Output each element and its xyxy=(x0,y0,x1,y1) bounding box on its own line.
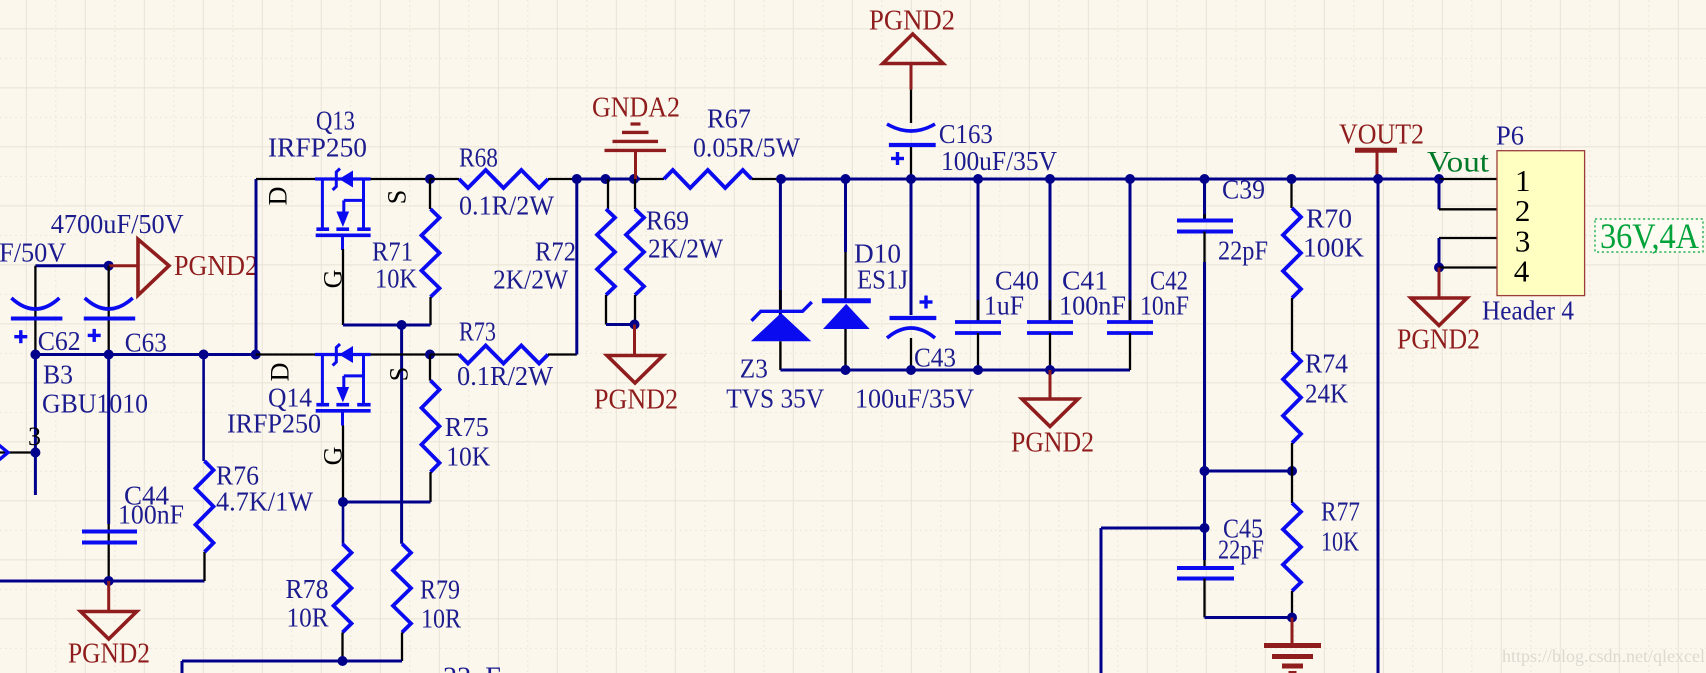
svg-text:R77: R77 xyxy=(1321,497,1360,527)
wire DC bus y=354.5 xyxy=(35,353,256,356)
capacitor C62 xyxy=(11,266,81,356)
capacitor C163 100uF/35V xyxy=(887,90,1057,179)
svg-text:4: 4 xyxy=(1514,253,1530,288)
resistor R70 100K xyxy=(1283,179,1365,352)
svg-text:R67: R67 xyxy=(707,104,751,134)
ground PGND2 below header xyxy=(1397,268,1480,356)
ground PGND2 below C44 xyxy=(68,581,150,669)
svg-text:S: S xyxy=(385,367,414,381)
wire divider bottom y=617.5 xyxy=(1205,616,1293,619)
svg-text:R70: R70 xyxy=(1306,204,1352,234)
svg-text:36V,4A: 36V,4A xyxy=(1600,216,1699,256)
svg-text:GNDA2: GNDA2 xyxy=(592,92,680,123)
svg-text:PGND2: PGND2 xyxy=(1011,427,1094,458)
svg-text:22pF: 22pF xyxy=(1218,535,1264,565)
svg-text:R75: R75 xyxy=(445,412,489,442)
svg-text:22uF: 22uF xyxy=(443,662,501,673)
node D10 ground junction xyxy=(841,365,851,375)
node R77 bottom junction xyxy=(1287,613,1297,623)
node Q14 gate junction xyxy=(338,497,348,507)
capacitor C43 100uF/35V xyxy=(855,179,974,414)
svg-text:B3: B3 xyxy=(43,360,73,390)
resistor R68 0.1R/2W xyxy=(430,143,577,221)
wire bottom-left ground bus y=581 xyxy=(0,580,205,583)
svg-text:4700uF/50V: 4700uF/50V xyxy=(0,238,67,268)
svg-text:PGND2: PGND2 xyxy=(594,384,678,415)
svg-text:S: S xyxy=(383,190,412,204)
node divider mid junction right xyxy=(1287,466,1297,476)
resistor R72 2K/2W xyxy=(493,179,615,325)
wire divider link y=471 xyxy=(1205,470,1293,473)
wire R73 tie-up x=576.8 xyxy=(575,179,578,355)
capacitor C39 22pF xyxy=(1177,175,1268,266)
svg-text:PGND2: PGND2 xyxy=(869,5,955,36)
svg-text:R71: R71 xyxy=(372,237,413,267)
node VOUT2 junction xyxy=(1373,174,1383,184)
wire pin1-pin2 link xyxy=(1438,179,1441,209)
capacitor C40 1uF xyxy=(955,179,1039,370)
capacitor C45 22pF xyxy=(1177,514,1264,618)
connector P6 Header 4 xyxy=(1482,121,1585,326)
wire R72/R69 bottom y=326 xyxy=(606,323,635,326)
svg-text:G: G xyxy=(319,270,348,289)
svg-text:PGND2: PGND2 xyxy=(68,638,150,669)
capacitor C44 xyxy=(82,355,184,582)
svg-text:10R: 10R xyxy=(421,604,461,634)
node C40 rail junction xyxy=(973,174,983,184)
wire output sense drop x=1378 xyxy=(1377,179,1380,673)
node C41 rail junction xyxy=(1045,174,1055,184)
svg-text:R74: R74 xyxy=(1305,349,1348,379)
svg-text:2K/2W: 2K/2W xyxy=(493,265,568,295)
wire drain tie x=256 xyxy=(255,179,258,355)
wire top cap bus y=266 xyxy=(35,264,109,267)
ground PGND2 below R69 xyxy=(594,325,678,416)
power port PGND2 (right-pointing) near C63 xyxy=(109,239,258,295)
node B3 output junction xyxy=(30,448,40,458)
transistor Q14 IRFP250 xyxy=(227,344,430,502)
node C39 rail junction xyxy=(1200,174,1210,184)
svg-text:D: D xyxy=(264,187,293,206)
svg-text:R69: R69 xyxy=(646,206,689,236)
node header pin4 junction xyxy=(1434,263,1444,273)
wire ground rail y=370 xyxy=(780,369,1130,372)
svg-text:1uF: 1uF xyxy=(984,291,1024,321)
svg-text:GBU1010: GBU1010 xyxy=(42,389,148,419)
node header pin1 junction xyxy=(1434,174,1444,184)
wire header pin1 xyxy=(1439,178,1497,180)
svg-text:10K: 10K xyxy=(375,264,417,294)
resistor R73 0.1R/2W xyxy=(430,317,577,392)
node C44 ground junction xyxy=(104,576,114,586)
svg-text:10R: 10R xyxy=(287,603,329,633)
node Q13 source junction xyxy=(425,174,435,184)
wire feedback y=528 xyxy=(1101,527,1205,530)
node C163/C43 rail junction xyxy=(906,174,916,184)
transistor Q13 IRFP250 xyxy=(256,106,430,325)
diode D10 ES1J xyxy=(822,179,908,370)
power port VOUT2 xyxy=(1339,119,1424,179)
power port PGND2 above C163 xyxy=(869,5,955,89)
svg-text:Z3: Z3 xyxy=(740,354,768,384)
ground GNDA2-style below R77 xyxy=(1264,618,1321,673)
node C62/C63 top junction xyxy=(104,261,114,271)
svg-text:24K: 24K xyxy=(1305,379,1348,409)
svg-text:C39: C39 xyxy=(1222,175,1265,205)
wire gate resistors bottom y=661 xyxy=(182,660,402,663)
node R78 bottom junction xyxy=(338,656,348,666)
svg-text:R73: R73 xyxy=(459,317,496,347)
svg-text:100nF: 100nF xyxy=(1059,291,1126,321)
svg-text:D: D xyxy=(266,363,295,382)
wire header pin2 xyxy=(1439,208,1497,210)
svg-text:4700uF/50V: 4700uF/50V xyxy=(51,209,184,239)
svg-text:4.7K/1W: 4.7K/1W xyxy=(216,487,314,517)
svg-text:ES1J: ES1J xyxy=(857,265,908,295)
svg-text:TVS 35V: TVS 35V xyxy=(726,384,824,414)
svg-text:0.1R/2W: 0.1R/2W xyxy=(457,361,553,391)
svg-text:Header 4: Header 4 xyxy=(1482,296,1574,326)
svg-text:10K: 10K xyxy=(446,442,490,472)
node Z3 rail junction xyxy=(776,174,786,184)
resistor R67 0.05R/5W xyxy=(640,104,800,188)
wire Q14 gate node y=502 xyxy=(343,501,431,504)
svg-text:100K: 100K xyxy=(1303,233,1365,263)
node C42 rail junction xyxy=(1125,174,1135,184)
resistor R78 10R xyxy=(286,502,352,661)
resistor R77 10K xyxy=(1283,471,1360,618)
capacitor C41 100nF xyxy=(1027,179,1126,370)
ground PGND2 below C41 xyxy=(1011,370,1094,458)
node D10 rail junction xyxy=(841,174,851,184)
svg-text:R79: R79 xyxy=(420,575,460,605)
node Q14 source junction xyxy=(425,350,435,360)
node R72/R69 bottom junction xyxy=(630,320,640,330)
svg-text:https://blog.csdn.net/qlexcel: https://blog.csdn.net/qlexcel xyxy=(1502,646,1705,666)
svg-text:10nF: 10nF xyxy=(1140,291,1189,321)
node C43 ground junction xyxy=(906,365,916,375)
resistor R74 24K xyxy=(1283,349,1348,471)
note 36V,4A xyxy=(1595,216,1703,256)
node Q13 gate junction xyxy=(397,320,407,330)
svg-text:3: 3 xyxy=(28,422,41,451)
svg-text:C63: C63 xyxy=(125,327,167,357)
wire header pin4 xyxy=(1439,266,1497,268)
svg-text:R78: R78 xyxy=(286,574,329,604)
svg-text:2K/2W: 2K/2W xyxy=(648,234,723,264)
node rail junctions xyxy=(572,174,582,184)
capacitor C42 10nF xyxy=(1107,179,1189,370)
svg-text:R68: R68 xyxy=(459,143,498,173)
wire Q13 gate node y=325 xyxy=(343,324,431,327)
TVS Z3 35V xyxy=(726,179,824,414)
wire C39 column down xyxy=(1203,262,1206,560)
svg-text:C43: C43 xyxy=(914,343,956,373)
node bus junctions xyxy=(30,350,40,360)
wire gate drive drop x=401.6 xyxy=(400,325,403,544)
svg-text:100nF: 100nF xyxy=(118,500,184,530)
svg-text:R72: R72 xyxy=(535,237,576,267)
svg-text:100uF/35V: 100uF/35V xyxy=(855,384,974,414)
resistor R75 10K xyxy=(422,355,491,503)
svg-text:C163: C163 xyxy=(939,119,993,149)
svg-text:C62: C62 xyxy=(38,326,81,356)
power port GNDA2 xyxy=(592,92,680,179)
wire pin3-pin4 link xyxy=(1438,238,1441,268)
capacitor C63 xyxy=(84,266,167,358)
svg-text:22pF: 22pF xyxy=(1218,236,1268,266)
resistor R71 10K xyxy=(372,179,440,325)
resistor R69 2K/2W xyxy=(626,179,723,325)
node R70 rail junction xyxy=(1287,174,1297,184)
svg-text:PGND2: PGND2 xyxy=(1397,324,1480,355)
node C40 ground junction xyxy=(973,365,983,375)
resistor R76 4.7K/1W xyxy=(196,355,314,582)
svg-text:IRFP250: IRFP250 xyxy=(268,133,367,163)
svg-text:VOUT2: VOUT2 xyxy=(1339,119,1424,150)
svg-text:P6: P6 xyxy=(1496,121,1524,151)
svg-text:100uF/35V: 100uF/35V xyxy=(941,146,1057,176)
svg-text:Vout: Vout xyxy=(1427,146,1490,179)
svg-text:0.1R/2W: 0.1R/2W xyxy=(459,191,554,221)
svg-text:G: G xyxy=(319,447,348,466)
svg-text:10K: 10K xyxy=(1321,527,1359,557)
resistor R79 10R xyxy=(393,544,461,661)
node C45 top junction xyxy=(1200,523,1210,533)
svg-text:IRFP250: IRFP250 xyxy=(227,409,321,439)
wire output rail y=179 xyxy=(577,178,640,181)
svg-text:PGND2: PGND2 xyxy=(174,251,258,282)
wire header pin3 xyxy=(1439,237,1497,239)
svg-text:Q13: Q13 xyxy=(316,106,355,136)
node divider mid junction left xyxy=(1200,466,1210,476)
bridge B3 GBU1010 (edge clip) xyxy=(0,355,148,496)
node C41 ground junction xyxy=(1045,365,1055,375)
svg-text:0.05R/5W: 0.05R/5W xyxy=(693,133,800,163)
